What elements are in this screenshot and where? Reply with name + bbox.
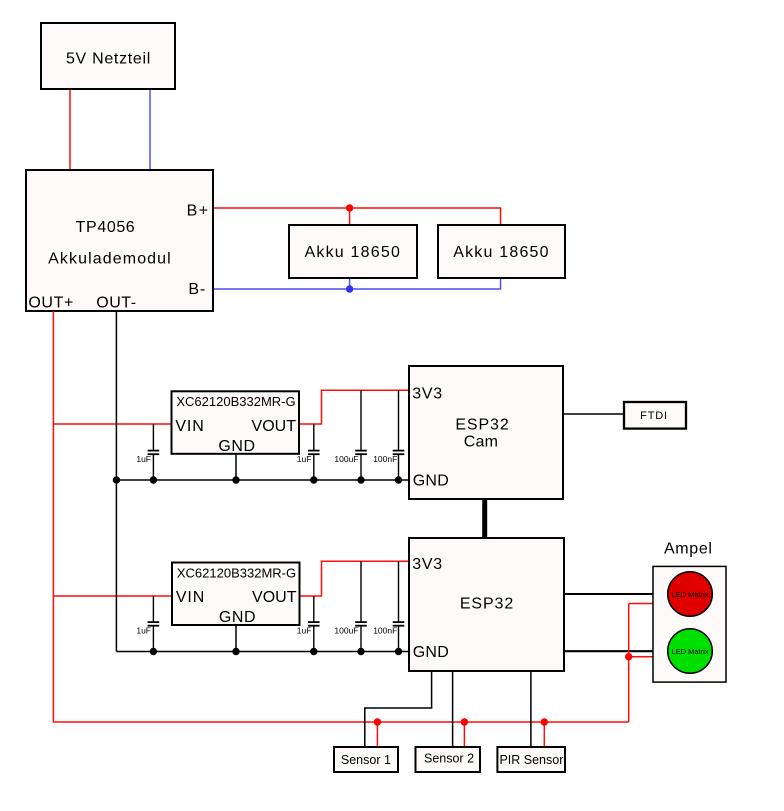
svg-text:1uF: 1uF [297, 626, 312, 636]
block Ampel housing [653, 566, 726, 682]
wire black ESP32 to PIR Sensor [530, 671, 532, 747]
svg-text:Sensor 2: Sensor 2 [424, 751, 474, 765]
wire red branch to VIN regulator 2 [53, 595, 172, 597]
wire red drop to PIR Sensor [543, 722, 545, 747]
wire thick serial link ESP32-Cam to ESP32 [482, 499, 487, 538]
svg-text:Ampel: Ampel [664, 541, 713, 558]
wire red to green LED [629, 656, 669, 658]
svg-text:100nF: 100nF [373, 626, 397, 636]
svg-text:3V3: 3V3 [412, 556, 443, 573]
capacitor C3 100uF [334, 390, 366, 480]
svg-text:GND: GND [219, 609, 256, 626]
capacitor C4 100nF [373, 390, 404, 480]
LED green (LED Matrix) [668, 629, 713, 674]
svg-text:PIR Sensor: PIR Sensor [499, 753, 563, 767]
svg-text:Akku 18650: Akku 18650 [305, 244, 402, 261]
wire red VOUT2 to ESP32 3V3 [300, 561, 410, 596]
svg-text:3V3: 3V3 [412, 386, 443, 403]
block FTDI [624, 402, 686, 429]
svg-text:VIN: VIN [176, 589, 205, 606]
svg-text:LED Matrix: LED Matrix [671, 590, 708, 599]
wire black OUT- down to ground buses [115, 311, 117, 652]
capacitor C7 100uF [334, 561, 366, 651]
wire blue 5V supply to TP4056 [149, 89, 151, 170]
svg-text:GND: GND [218, 438, 255, 455]
svg-text:XC62120B332MR-G: XC62120B332MR-G [176, 394, 295, 409]
regulator U1 XC62120B332MR-G [172, 391, 300, 455]
junction red ampel node [625, 653, 632, 660]
wire ESP32-Cam to FTDI [563, 413, 624, 415]
wire black ESP32 to Sensor 2 [452, 671, 454, 747]
junction red B+ node [346, 204, 353, 211]
svg-text:Cam: Cam [464, 433, 498, 450]
svg-text:100uF: 100uF [334, 626, 358, 636]
svg-text:XC62120B332MR-G: XC62120B332MR-G [177, 565, 296, 580]
svg-text:OUT+: OUT+ [28, 295, 74, 312]
svg-text:GND: GND [413, 473, 449, 490]
capacitor C8 100nF [373, 561, 404, 651]
wire black ESP32 to red LED [564, 593, 668, 595]
LED red (LED Matrix) [668, 572, 713, 617]
block TP4056 Akkulademodul [26, 170, 213, 312]
svg-text:100uF: 100uF [334, 454, 358, 464]
svg-text:ESP32: ESP32 [460, 595, 514, 612]
block battery Akku 18650 #2 [438, 225, 565, 278]
wire red VOUT1 to ESP32-Cam 3V3 [299, 390, 409, 424]
wire red branch to VIN regulator 1 [53, 423, 171, 425]
svg-text:GND: GND [413, 644, 449, 661]
junction blue B- node [346, 285, 353, 292]
svg-text:B+: B+ [187, 202, 210, 219]
svg-text:1uF: 1uF [297, 454, 312, 464]
svg-text:5V Netzteil: 5V Netzteil [66, 50, 151, 67]
block Sensor 1 [334, 747, 398, 772]
wire black ESP32 GND to green LED [564, 650, 668, 652]
svg-text:LED Matrix: LED Matrix [671, 647, 708, 656]
regulator U2 XC62120B332MR-G [172, 563, 300, 627]
svg-text:OUT-: OUT- [96, 295, 136, 312]
svg-text:TP4056: TP4056 [76, 219, 136, 236]
wire red drop to Sensor 2 [463, 722, 465, 747]
svg-text:FTDI: FTDI [640, 410, 668, 422]
svg-text:Akku 18650: Akku 18650 [453, 244, 550, 261]
wire GND bus 1 [116, 479, 409, 481]
block ESP32 [409, 538, 564, 671]
block PIR Sensor [497, 747, 565, 772]
svg-text:VOUT: VOUT [252, 589, 297, 606]
wire red to red LED [629, 603, 670, 605]
capacitor C2 1uF (output reg1) [297, 424, 320, 480]
block battery Akku 18650 #1 [289, 225, 417, 278]
svg-text:1uF: 1uF [136, 626, 151, 636]
wire red drop to Sensor 1 [376, 722, 378, 747]
svg-text:ESP32: ESP32 [455, 416, 509, 433]
block Sensor 2 [416, 747, 481, 772]
junction red sensor 2 [461, 718, 468, 725]
block 5V Netzteil [41, 23, 175, 89]
svg-text:VIN: VIN [175, 418, 204, 435]
wire red OUT+ rail (down left side and across bottom) [53, 311, 628, 722]
junction GND bus 2 dots [150, 648, 402, 655]
svg-text:Sensor 1: Sensor 1 [341, 753, 391, 767]
capacitor C1 1uF (input reg1) [136, 424, 159, 480]
svg-text:1uF: 1uF [136, 454, 151, 464]
wire regulator 1 GND lead [235, 454, 237, 480]
wire black ESP32 to Sensor 1 [365, 671, 432, 747]
capacitor C5 1uF (input reg2) [136, 596, 159, 652]
wire GND bus 2 [116, 651, 409, 653]
wire red ampel feed vertical [628, 604, 630, 723]
svg-text:B-: B- [188, 281, 206, 298]
block ESP32 Cam [409, 366, 563, 499]
junction red PIR [541, 718, 548, 725]
svg-text:VOUT: VOUT [252, 418, 297, 435]
svg-text:Akkulademodul: Akkulademodul [48, 250, 172, 267]
wire blue B- to batteries [213, 278, 501, 289]
wire red 5V supply to TP4056 [69, 89, 71, 170]
wire regulator 2 GND lead [235, 625, 237, 652]
capacitor C6 1uF (output reg2) [297, 596, 320, 652]
wire red B+ to batteries [213, 208, 501, 225]
junction GND bus 1 dots [113, 476, 402, 483]
junction red sensor 1 [374, 718, 381, 725]
svg-text:100nF: 100nF [373, 454, 397, 464]
